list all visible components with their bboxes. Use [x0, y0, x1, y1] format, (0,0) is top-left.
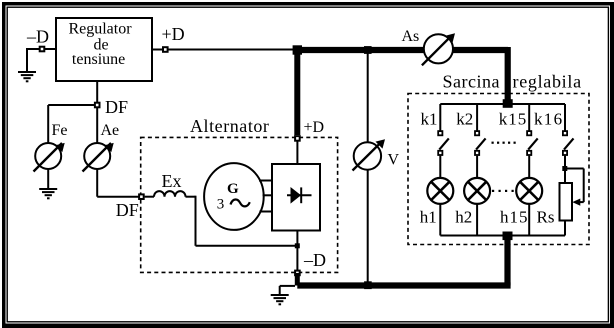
svg-text:Ae: Ae	[101, 122, 120, 139]
svg-text:reglabila: reglabila	[513, 71, 582, 91]
svg-text:Fe: Fe	[52, 122, 68, 139]
node -D terminal (regulator input)	[40, 47, 45, 52]
wire -D terminal drop to return bus	[295, 273, 300, 286]
sarcina dashed enclosure	[408, 94, 589, 245]
wire phase 3	[259, 211, 272, 213]
rectifier bridge box	[272, 164, 320, 231]
wire phase 2	[263, 194, 272, 196]
node +D terminal on alternator box	[295, 136, 300, 141]
svg-text:tensiune: tensiune	[72, 51, 125, 68]
wire k2 to lamp h2	[476, 156, 478, 178]
wire ground drop (bottom)	[279, 286, 281, 294]
wire rectifier bottom to -D terminal	[296, 231, 298, 273]
junction at sarcina top bus	[503, 99, 513, 108]
switch k1	[438, 104, 449, 155]
switch k16	[563, 104, 574, 155]
wire DF lower horizontal to alternator	[97, 196, 141, 198]
svg-text:3: 3	[217, 196, 225, 212]
wire thick bottom return bus	[297, 282, 510, 288]
svg-text:G: G	[227, 181, 239, 197]
svg-text:Rs: Rs	[537, 208, 555, 227]
wire V branch vertical (bottom)	[367, 169, 369, 285]
wire k15 to lamp h15	[528, 156, 530, 178]
svg-text:As: As	[402, 28, 420, 45]
wire lamp h15 to bottom bus	[528, 204, 530, 236]
meter V (voltmeter)	[353, 139, 386, 170]
svg-text:DF: DF	[116, 200, 139, 220]
lamp h2	[464, 178, 490, 204]
svg-text:+D: +D	[304, 119, 325, 136]
svg-text:DF: DF	[105, 97, 128, 117]
meter Fe (field current meter)	[34, 143, 65, 172]
ground (left, under -D)	[18, 71, 36, 82]
dots ellipsis between lamps h2 and h15	[492, 190, 514, 192]
node DF terminal on alternator box	[139, 194, 144, 199]
svg-text:h1: h1	[420, 208, 437, 227]
junction Ex return / -D net	[295, 243, 300, 248]
wire Ae meter down	[96, 169, 98, 197]
svg-text:Sarcina: Sarcina	[443, 71, 500, 91]
wire sarcina bottom bus	[440, 235, 565, 237]
wire thick +D bus (top)	[294, 47, 508, 53]
wire wiper tap right	[565, 168, 584, 170]
svg-text:–D: –D	[26, 27, 49, 47]
wire +D from regulator to thick bus	[152, 49, 296, 51]
junction V branch bottom	[364, 281, 372, 289]
wire DF horizontal to Fe branch	[48, 104, 97, 106]
node -D terminal on alternator box	[295, 271, 300, 276]
wire V branch vertical (top)	[367, 50, 369, 143]
wire ground stub (bottom)	[280, 285, 295, 287]
wire Ex return horizontal to -D net	[196, 245, 298, 247]
wire rectifier top to +D terminal	[296, 141, 298, 164]
dots ellipsis between k2 and k15 switches	[492, 142, 516, 144]
wire Ex return drop	[195, 196, 197, 246]
node +D terminal (regulator output)	[163, 47, 168, 52]
junction V branch top	[364, 46, 372, 54]
wire ground drop at left	[26, 49, 28, 72]
wire thick sarcina bottom drop	[504, 236, 510, 286]
wire lamp h2 to bottom bus	[476, 204, 478, 236]
inductor Ex (excitation winding)	[145, 191, 196, 197]
junction at sarcina bottom bus	[503, 232, 513, 241]
junction Rs wiper tap	[562, 166, 567, 171]
wire Fe meter to ground	[47, 169, 49, 188]
meter As (ammeter)	[422, 33, 455, 65]
wire wiper drop	[583, 169, 585, 203]
resistor Rs (rheostat)	[560, 183, 573, 221]
wire k16 to Rs junction	[564, 156, 566, 183]
wiper arrow into Rs	[572, 199, 583, 206]
wire thick bus right drop into Sarcina	[505, 47, 511, 103]
alternator dashed enclosure	[141, 137, 338, 272]
regulator box U1 Regulator de tensiune	[56, 18, 152, 81]
junction +D bus corner	[293, 45, 302, 54]
lamp h15	[516, 178, 542, 204]
node DF terminal	[95, 103, 100, 108]
wire Rs to bottom bus	[564, 221, 566, 236]
lamp h1	[427, 178, 453, 204]
wire thick +D drop to alternator	[294, 50, 300, 135]
wire k1 to lamp h1	[439, 156, 441, 178]
svg-text:Regulator: Regulator	[68, 21, 132, 38]
wire sarcina top bus	[440, 103, 565, 105]
wire lamp h1 to bottom bus	[439, 204, 441, 236]
wire Fe branch vertical	[47, 105, 49, 144]
svg-text:+D: +D	[162, 24, 185, 44]
wire phase 1	[259, 180, 272, 182]
svg-text:k15: k15	[499, 110, 528, 129]
svg-text:Alternator: Alternator	[190, 116, 269, 136]
diode D1 (rectifier symbol)	[287, 187, 312, 204]
wire -D terminal to regulator	[26, 48, 56, 50]
ground (bottom, -D net)	[271, 294, 289, 305]
meter Ae (excitation current meter)	[83, 143, 114, 172]
switch k15	[527, 104, 538, 155]
ground (under Fe meter)	[39, 188, 57, 199]
svg-text:h15: h15	[500, 208, 529, 227]
generator G1 (3-phase machine)	[204, 163, 264, 230]
svg-text:–D: –D	[303, 250, 326, 270]
svg-text:k16: k16	[534, 110, 563, 129]
switch k2	[475, 104, 486, 155]
svg-text:k1: k1	[421, 110, 438, 129]
svg-text:h2: h2	[455, 208, 472, 227]
svg-text:k2: k2	[456, 110, 473, 129]
svg-text:V: V	[388, 151, 400, 168]
svg-text:Ex: Ex	[162, 171, 182, 191]
wire DF vertical from regulator bottom	[96, 81, 98, 144]
